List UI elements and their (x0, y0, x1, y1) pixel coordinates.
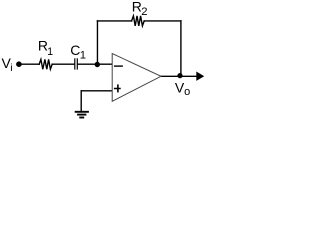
svg-text:1: 1 (47, 46, 53, 58)
svg-text:o: o (184, 86, 190, 98)
svg-text:1: 1 (80, 49, 86, 61)
svg-text:R: R (132, 0, 142, 14)
svg-text:2: 2 (141, 6, 147, 18)
svg-text:C: C (70, 42, 80, 58)
svg-text:i: i (10, 62, 12, 74)
